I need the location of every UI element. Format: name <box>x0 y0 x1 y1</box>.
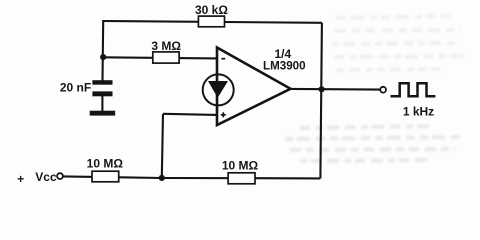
svg-text:3 MΩ: 3 MΩ <box>151 39 181 53</box>
svg-text:Vcc: Vcc <box>35 170 57 184</box>
svg-text:20 nF: 20 nF <box>60 81 91 95</box>
svg-text:10 MΩ: 10 MΩ <box>222 159 259 173</box>
svg-text:+: + <box>17 172 24 186</box>
svg-text:10 MΩ: 10 MΩ <box>87 157 124 171</box>
svg-text:1 kHz: 1 kHz <box>403 105 434 119</box>
svg-text:30 kΩ: 30 kΩ <box>195 3 228 17</box>
svg-text:LM3900: LM3900 <box>263 59 306 72</box>
